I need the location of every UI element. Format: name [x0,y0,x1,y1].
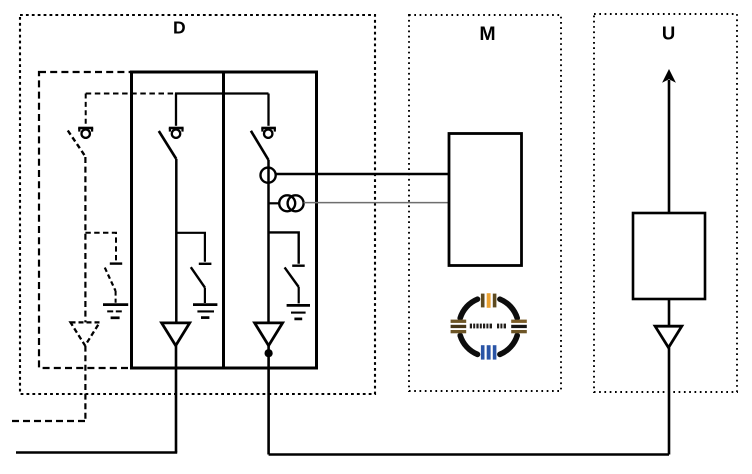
enclosure U (dotted boundary) [594,14,737,392]
cable termination T2 [255,323,283,346]
switchgear cubicle (solid box) [132,72,317,368]
wire: reserve earth branch (dashed) [85,233,116,262]
logo centre text (tiny glyph marks) [470,324,506,329]
logo bottom bars (blue) [481,345,497,359]
current transformer CT (double circle) [279,195,303,211]
enclosure D (dotted boundary) [20,15,375,394]
wire: feeder 1 drop [175,159,178,323]
wire: cable 1 to exit [175,346,178,453]
ground (reserve) [103,305,128,318]
earthing switch QE0 (reserve, dashed) [105,264,122,303]
wire: reserve cable tail (dashed) [84,346,86,421]
reserve compartment (dashed box) [39,72,132,368]
disconnector Q0 (reserve, dashed) [68,94,93,158]
wire: U riser [668,80,671,213]
earthing switch QE1 [191,264,212,303]
disconnector Q2 [251,94,276,161]
wire: earth branch 2 [269,232,299,263]
cable termination T3 (U side) [655,326,682,347]
wire: U block to termination [668,299,671,326]
earthing switch QE2 [285,266,305,304]
arrow to grid (U output) [662,69,676,83]
wire: reserve cable run (dashed horizontal) [12,420,85,422]
wire: outgoing cable 2 (bottom) [269,453,669,456]
wire: CT tap [269,202,280,204]
transformer/unit block U1 [633,213,705,299]
wire: feeder 2 drop [267,160,270,323]
busbar link wire (solid part) [175,92,269,94]
disconnector Q1 [159,94,184,160]
svg-text:D: D [173,17,186,37]
voltage transformer VT (circle on feeder) [261,168,276,183]
svg-text:U: U [662,23,675,44]
cable termination T0 (reserve, dashed triangle) [71,322,100,345]
cubicle divider [222,72,225,368]
enclosure M (dotted boundary) [409,15,561,391]
ground 1 [193,305,217,318]
logo left bars [451,320,467,334]
wire: cable 2 to exit [267,346,270,455]
ground 2 [287,305,310,319]
svg-text:M: M [479,23,495,45]
meter unit block [449,134,522,266]
wire: CT signal to meter (grey) [304,202,449,204]
wire: U cable tail [668,348,671,455]
junction dot [265,349,273,357]
logo right bars [511,320,527,334]
utility logo (arc ring) [460,299,517,354]
wire: VT signal to meter [276,173,449,175]
logo top bars [481,293,497,308]
wire: earth branch 1 [176,233,205,262]
wire: outgoing cable 1 (bottom left) [16,451,177,454]
wire: reserve feeder drop (dashed) [84,157,86,323]
busbar link wire (dashed part) [86,93,175,95]
cable termination T1 [162,323,190,346]
